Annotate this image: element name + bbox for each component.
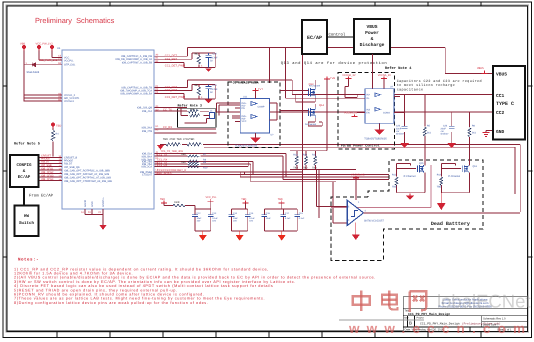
svg-text:Q14: Q14 xyxy=(319,104,324,107)
svg-text:Power: Power xyxy=(365,30,379,36)
svg-text:CC2: CC2 xyxy=(496,110,505,116)
svg-text:lobalECNet: lobalECNet xyxy=(437,291,531,312)
svg-text:VCCNB_AC: VCCNB_AC xyxy=(351,174,365,177)
svg-text:Refer Note 5: Refer Note 5 xyxy=(14,142,40,147)
svg-text:CC1: CC1 xyxy=(496,93,505,99)
svg-text:5K1: 5K1 xyxy=(472,132,477,135)
svg-text:Date: Wednesday, April 20, 20: Date: Wednesday, April 20, 2016 xyxy=(405,329,445,332)
svg-text:VCCSL3: VCCSL3 xyxy=(64,100,74,103)
svg-text:<or: <or xyxy=(441,130,445,133)
svg-text:R12: R12 xyxy=(437,174,442,177)
svg-text:TBD: TBD xyxy=(303,166,308,169)
svg-text:P-Channel: P-Channel xyxy=(404,175,416,178)
svg-text:TBD: TBD xyxy=(312,166,317,169)
svg-text:VCCPLL: VCCPLL xyxy=(64,59,74,62)
svg-text:22nF: 22nF xyxy=(441,127,447,130)
svg-text:R21: R21 xyxy=(312,153,317,156)
svg-text:IN-: IN- xyxy=(366,97,369,100)
svg-text:CC1_PD_PHY_Main_Design: CC1_PD_PHY_Main_Design xyxy=(408,312,450,316)
svg-text:SMAJ5928: SMAJ5928 xyxy=(27,71,40,74)
svg-text:Q16: Q16 xyxy=(473,165,478,168)
svg-text:GNDPLL: GNDPLL xyxy=(102,196,105,207)
svg-text:10uF: 10uF xyxy=(197,217,203,220)
svg-text:Size: Size xyxy=(404,317,409,320)
svg-text:CONFIG: CONFIG xyxy=(16,163,32,168)
svg-text:10uF: 10uF xyxy=(266,217,272,220)
svg-text:PD/BB Power Control: PD/BB Power Control xyxy=(341,144,380,149)
svg-text:VCC_PW_1V2: VCC_PW_1V2 xyxy=(36,43,54,46)
svg-text:IN1+: IN1+ xyxy=(242,102,248,105)
svg-text:TBD: TBD xyxy=(392,186,397,189)
svg-text:16V: 16V xyxy=(197,220,201,223)
svg-text:16V: 16V xyxy=(233,220,237,223)
svg-text:22nF: 22nF xyxy=(396,127,402,130)
svg-text:Notes:-: Notes:- xyxy=(18,258,39,263)
svg-text:CC_TX: CC_TX xyxy=(163,109,172,112)
svg-text:VCCNA_3V: VCCNA_3V xyxy=(378,74,392,77)
svg-text:TBD: TBD xyxy=(437,186,442,189)
svg-text:CC1_TX: CC1_TX xyxy=(157,153,167,156)
svg-text:P-Channel: P-Channel xyxy=(448,175,460,178)
svg-text:10uF: 10uF xyxy=(233,217,239,220)
svg-text:EN: EN xyxy=(242,107,246,110)
svg-text:VBUS: VBUS xyxy=(496,72,507,78)
svg-text:similar>: similar> xyxy=(396,133,405,136)
svg-text:IN2-: IN2- xyxy=(242,117,247,120)
svg-text:IOB_2CA: IOB_2CA xyxy=(141,166,152,169)
svg-text:TBD: TBD xyxy=(190,108,195,111)
svg-text:16V: 16V xyxy=(212,220,216,223)
svg-text:Q13 and Q14 are for device pr: Q13 and Q14 are for device protection xyxy=(281,61,388,66)
svg-text:N-Channel: N-Channel xyxy=(309,85,320,88)
svg-text:VBUS: VBUS xyxy=(366,24,377,30)
svg-text:C23: C23 xyxy=(443,125,448,128)
svg-text:TBD 470R TBD 4700/TBD: TBD 470R TBD 4700/TBD xyxy=(163,138,195,141)
svg-text:TVT: TVT xyxy=(258,88,263,91)
svg-text:0.1uF: 0.1uF xyxy=(249,217,255,220)
svg-text:TVB: TVB xyxy=(330,77,335,80)
svg-text:TBD: TBD xyxy=(181,153,186,156)
svg-text:CC1_PD_PHY_Main_Design: CC1_PD_PHY_Main_Design xyxy=(420,322,460,326)
svg-text:TBD: TBD xyxy=(194,84,199,87)
svg-text:similar>: similar> xyxy=(441,133,450,136)
svg-text:U1: U1 xyxy=(57,47,61,50)
svg-text:Preliminary Schematics: Preliminary Schematics xyxy=(35,16,115,25)
svg-text:GND: GND xyxy=(91,201,94,207)
svg-text:TCBA25/TCBD5035: TCBA25/TCBD5035 xyxy=(235,144,258,147)
svg-text:CC2_DET_PWM: CC2_DET_PWM xyxy=(165,96,186,99)
svg-text:VBUS: VBUS xyxy=(477,67,484,70)
svg-text:OTP_DSL: OTP_DSL xyxy=(64,64,76,67)
svg-text:From EC/AP: From EC/AP xyxy=(29,194,54,199)
svg-text:TCBA25/TCBD5035: TCBA25/TCBD5035 xyxy=(364,138,387,141)
svg-text:IOB_CAB_OPT_CTPATCHP_A3_IOB_34: IOB_CAB_OPT_CTPATCHP_A3_IOB_34B xyxy=(64,180,112,183)
svg-text:VCCNA_3V: VCCNA_3V xyxy=(342,74,356,77)
svg-text:C10: C10 xyxy=(213,52,218,55)
svg-text:TBD: TBD xyxy=(278,198,283,201)
svg-text:TBD: TBD xyxy=(160,198,165,201)
svg-text:TYPE C: TYPE C xyxy=(496,101,514,107)
svg-text:100R: 100R xyxy=(174,201,180,204)
svg-text:16V: 16V xyxy=(249,220,253,223)
svg-text:TBD_AP#CC: TBD_AP#CC xyxy=(157,172,172,175)
svg-text:TBD: TBD xyxy=(241,198,246,201)
svg-text:Project: Project xyxy=(417,317,425,320)
svg-text:<or: <or xyxy=(396,130,400,133)
svg-text:0.1uF: 0.1uF xyxy=(299,217,305,220)
svg-text:CONO: CONO xyxy=(383,111,390,114)
svg-text:U11: U11 xyxy=(243,96,248,99)
svg-text:C11: C11 xyxy=(213,84,218,87)
svg-text:SN74LVC1G3157: SN74LVC1G3157 xyxy=(364,220,384,223)
svg-text:Control: Control xyxy=(329,33,346,38)
svg-text:IOB_OAPCOMP_A_IOB_5A: IOB_OAPCOMP_A_IOB_5A xyxy=(120,93,152,96)
svg-text:EC/AP: EC/AP xyxy=(307,35,322,41)
svg-text:VBB_PWR_1V2: VBB_PWR_1V2 xyxy=(39,59,58,62)
svg-text:Dead Batttery: Dead Batttery xyxy=(431,221,470,227)
svg-text:GND: GND xyxy=(496,129,505,135)
svg-text:VCC: VCC xyxy=(242,120,247,123)
svg-text:CC1_DET: CC1_DET xyxy=(165,58,178,61)
svg-text:C22: C22 xyxy=(396,125,401,128)
svg-text:COMP: COMP xyxy=(258,105,265,108)
svg-text:AGND: AGND xyxy=(84,200,87,207)
svg-text:IOB_CAPTR4F_A_IOB_5B: IOB_CAPTR4F_A_IOB_5B xyxy=(122,61,153,64)
svg-text:HW: HW xyxy=(24,214,30,219)
svg-text:Refer Note 4: Refer Note 4 xyxy=(385,66,412,71)
svg-text:CC_RX: CC_RX xyxy=(163,126,172,129)
svg-text:capacitance: capacitance xyxy=(397,88,424,93)
svg-text:CC1_DET_PWM: CC1_DET_PWM xyxy=(165,65,186,68)
svg-text:IOB_CFG4: IOB_CFG4 xyxy=(41,178,54,181)
svg-text:5K1: 5K1 xyxy=(427,132,432,135)
svg-text:IOB_J1A: IOB_J1A xyxy=(142,110,152,113)
svg-text:to meet silicon recharge: to meet silicon recharge xyxy=(397,83,455,88)
svg-text:CC2_DET: CC2_DET xyxy=(165,89,178,92)
svg-text:R20: R20 xyxy=(303,153,308,156)
svg-text:Discharge: Discharge xyxy=(360,42,385,48)
svg-text:Q15: Q15 xyxy=(419,162,424,165)
svg-text:TBD: TBD xyxy=(56,125,61,128)
svg-text:VCC_PLL: VCC_PLL xyxy=(206,196,218,199)
svg-text:0.1uF: 0.1uF xyxy=(285,217,291,220)
svg-text:0.1uF: 0.1uF xyxy=(212,217,218,220)
svg-text:TBD: TBD xyxy=(293,166,298,169)
svg-text:VBB: VBB xyxy=(20,43,25,46)
svg-text:EN: EN xyxy=(366,111,370,114)
svg-text:R19: R19 xyxy=(293,153,298,156)
svg-text:TBD: TBD xyxy=(194,53,199,56)
svg-text:CTSCNT: CTSCNT xyxy=(142,173,153,176)
svg-text:TBD: TBD xyxy=(181,161,186,164)
svg-text:8)During configuration lattice: 8)During configuration lattice device pi… xyxy=(14,301,208,305)
svg-text:IOB_27B: IOB_27B xyxy=(142,130,152,133)
svg-text:CC2_RX: CC2_RX xyxy=(157,164,168,167)
svg-text:&: & xyxy=(371,36,374,42)
svg-text:CC RA2A25 REGA: CC RA2A25 REGA xyxy=(233,81,259,85)
svg-text:Capacitors C22 and C23 are req: Capacitors C22 and C23 are required xyxy=(397,79,482,84)
svg-text:N-Channel: N-Channel xyxy=(305,123,316,126)
svg-text:R10: R10 xyxy=(203,166,208,169)
svg-text:VCCNA_3V: VCCNA_3V xyxy=(344,111,358,114)
